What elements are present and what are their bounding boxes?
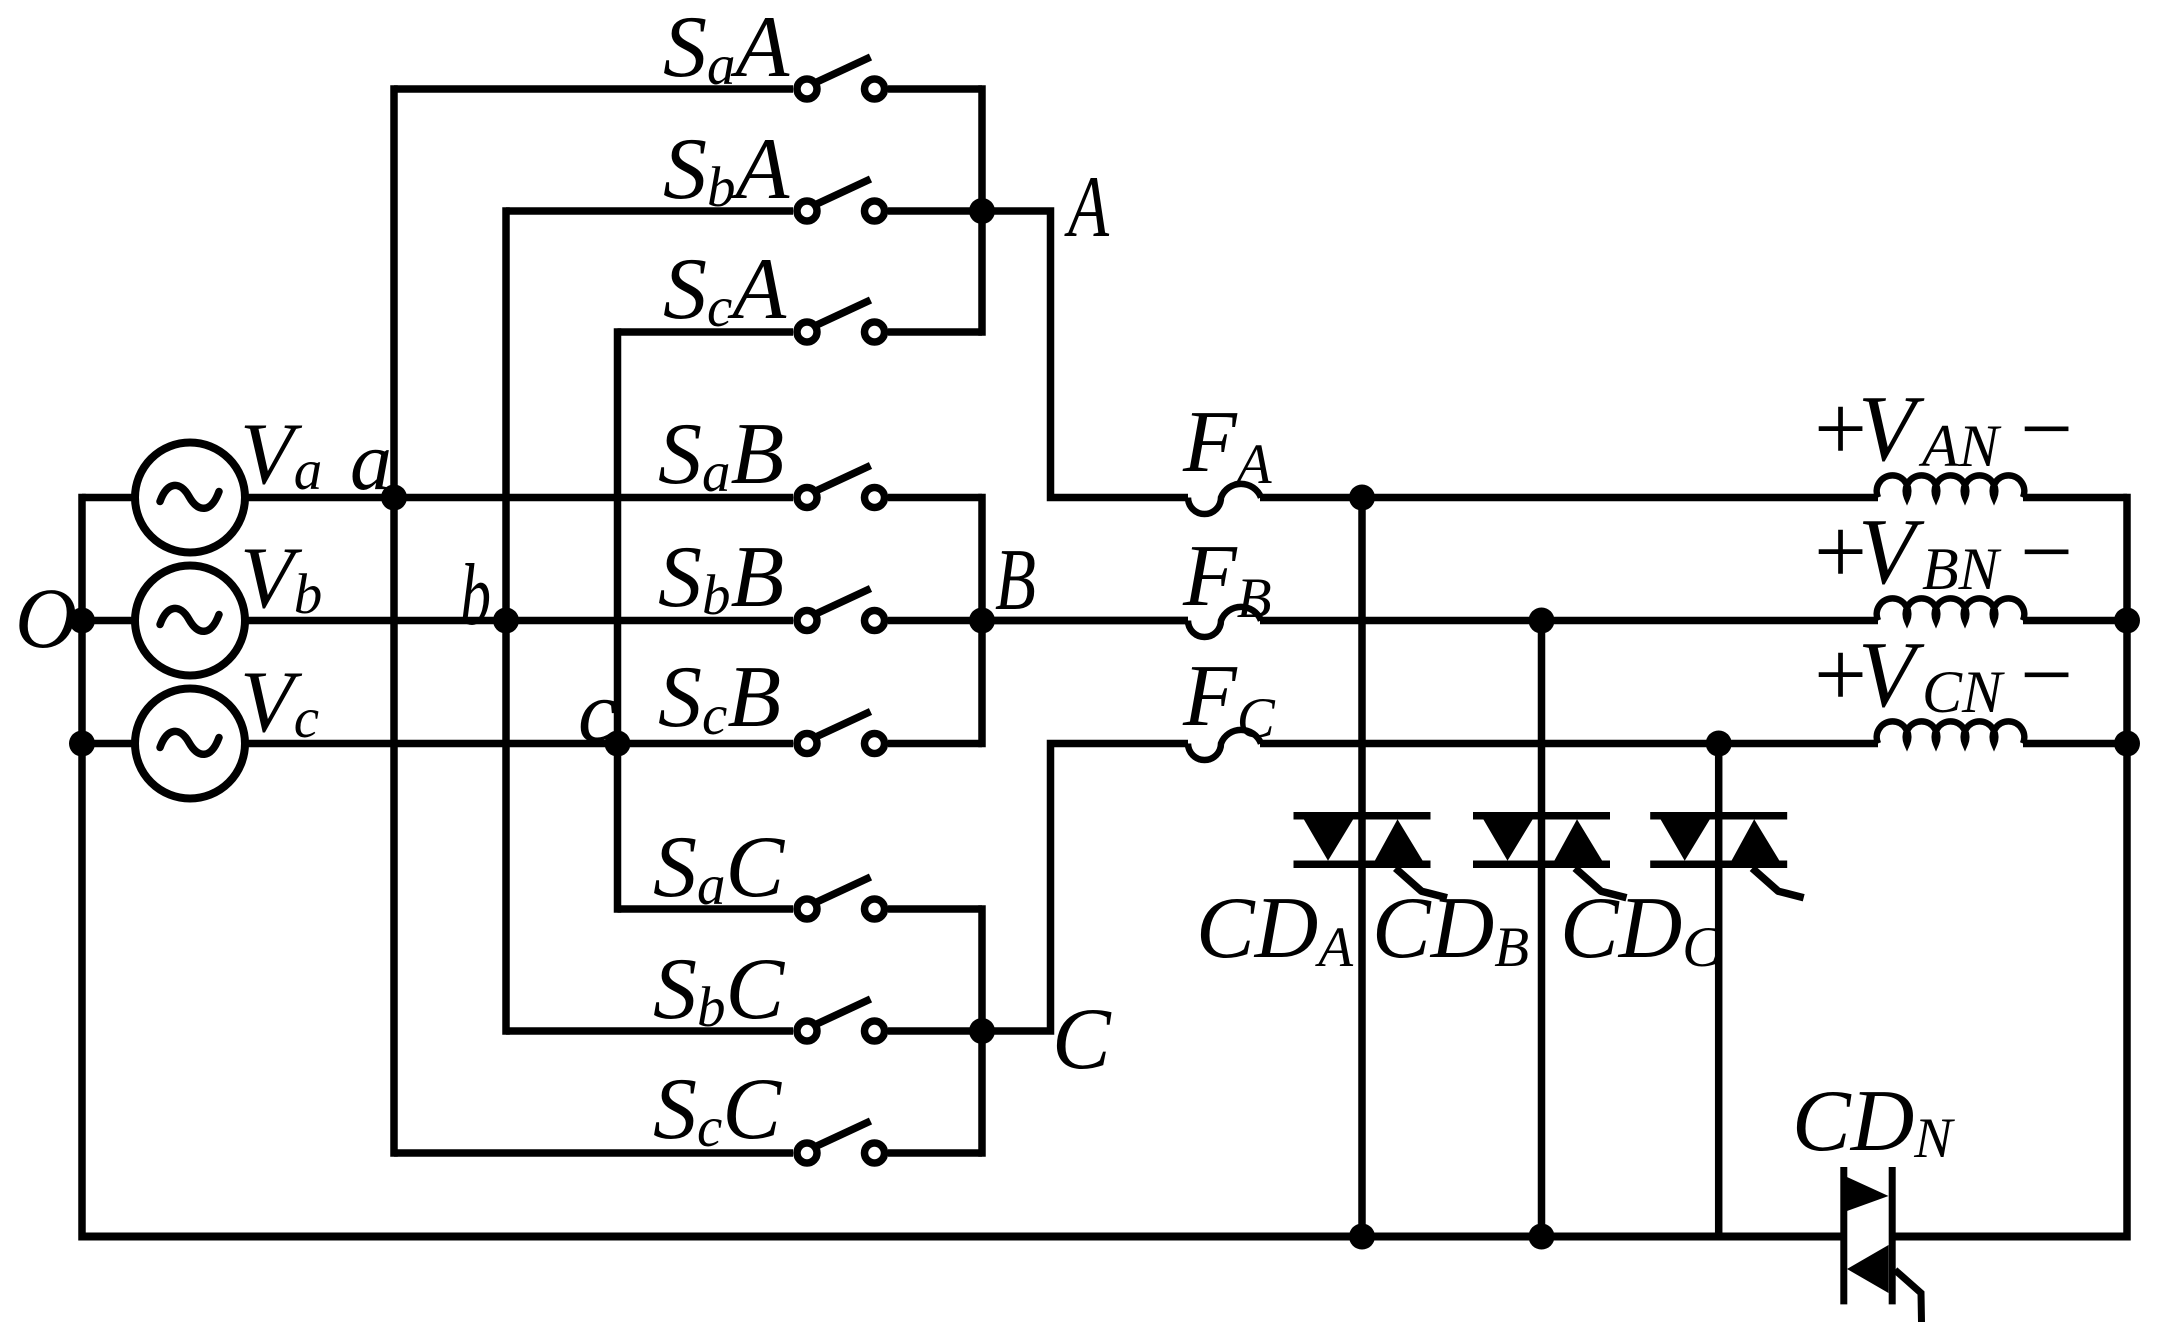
wire: bottom horizontal (right of CD_N) <box>1892 1233 2127 1241</box>
wire: crowbar vertical CD_B <box>1538 621 1546 1237</box>
svg-text:c: c <box>578 664 617 761</box>
switch SbA <box>797 179 885 221</box>
svg-text:−: − <box>2014 623 2077 727</box>
wire: FB row after fuse to inductor <box>1260 617 1878 625</box>
node B dot <box>969 608 995 634</box>
junction dot bottom CD_B <box>1529 1224 1555 1250</box>
switch ScC <box>797 1121 885 1163</box>
switch SbB <box>797 589 885 631</box>
switch ScB <box>797 712 885 754</box>
wire: crowbar vertical CD_C <box>1715 744 1723 1237</box>
wire: vertical c feeder <box>614 328 622 913</box>
svg-text:V: V <box>1858 623 1925 727</box>
node A dot <box>969 198 995 224</box>
wire: left vertical from phase-a corner through O down to bottom <box>78 494 86 1241</box>
label +V_CN- <box>1808 623 2077 727</box>
svg-text:B: B <box>995 532 1036 629</box>
AC source Va <box>135 443 245 553</box>
svg-text:O: O <box>15 570 77 666</box>
svg-text:CN: CN <box>1922 659 2005 725</box>
junction dot FA/CD_A <box>1349 485 1375 511</box>
junction dot bottom CD_A <box>1349 1224 1375 1250</box>
wire: phase a row source to switch <box>240 494 793 502</box>
fuse FB <box>1188 607 1261 637</box>
node c dot <box>605 731 631 757</box>
wire: switch row SbA <box>506 207 793 215</box>
inductor load VCN <box>1877 721 2025 743</box>
wire: bottom horizontal (left of CD_N) <box>82 1233 1844 1241</box>
wire: FC row after fuse to inductor <box>1260 740 1878 748</box>
wire: FA row inductor right to N vertical <box>2023 494 2127 502</box>
inductor load VBN <box>1877 598 2025 620</box>
wire: phase b row after switch to fuse FB <box>888 617 1188 625</box>
node O dot <box>69 608 95 634</box>
svg-text:V: V <box>1858 500 1925 604</box>
AC source Vc <box>135 689 245 799</box>
wire: phase b row stub <box>82 617 140 625</box>
junction dot N/VCN <box>2114 731 2140 757</box>
wire: vertical a feeder <box>390 85 398 1157</box>
switch SaC <box>797 877 885 919</box>
svg-text:V: V <box>1858 377 1925 481</box>
svg-text:BN: BN <box>1922 536 2002 602</box>
svg-text:AN: AN <box>1918 413 2002 479</box>
switch SbC <box>797 999 885 1041</box>
node C dot <box>969 1018 995 1044</box>
wire: switch row ScC <box>394 1149 793 1157</box>
wire: phase c row source to switch <box>240 740 793 748</box>
fuse FC <box>1188 730 1261 760</box>
inductor load VAN <box>1877 475 2025 497</box>
node a dot <box>381 485 407 511</box>
wire: switch row SaC <box>618 905 794 913</box>
svg-text:−: − <box>2014 377 2077 481</box>
wire: phase a row after switch <box>888 494 982 502</box>
node b dot <box>493 608 519 634</box>
triac CD_C <box>1650 816 1804 898</box>
node dot left phase c <box>69 731 95 757</box>
wire: N vertical right side <box>2123 494 2131 1241</box>
svg-text:−: − <box>2014 500 2077 604</box>
svg-text:a: a <box>350 415 392 508</box>
wire: phase b row source to switch <box>240 617 793 625</box>
junction dot N/VBN <box>2114 608 2140 634</box>
switch SaB <box>797 466 885 508</box>
wire: A group right vertical <box>978 85 986 336</box>
junction dot FB/CD_B <box>1529 608 1555 634</box>
fuse FA <box>1188 484 1261 514</box>
label +V_AN- <box>1808 377 2077 481</box>
switch SaA <box>797 57 885 99</box>
svg-text:b: b <box>460 547 491 644</box>
wire: switch row ScA <box>618 328 794 336</box>
switch ScA <box>797 300 885 342</box>
junction dot FC/CD_C <box>1706 731 1732 757</box>
wire: phase c row after switch <box>888 740 982 748</box>
triac CD_N (rotated) <box>1844 1167 1922 1322</box>
wire: node A to output row <box>982 211 1188 498</box>
label +V_BN- <box>1808 500 2077 604</box>
wire: phase c row stub <box>82 740 140 748</box>
wire: B group right vertical <box>978 494 986 748</box>
wire: switch row SbC <box>506 1027 793 1035</box>
svg-text:A: A <box>1064 159 1110 256</box>
wire: vertical b feeder <box>502 207 510 1035</box>
wire: crowbar vertical CD_A <box>1358 498 1366 1237</box>
wire: phase a row stub <box>82 494 140 502</box>
wire: switch row SaA <box>394 85 793 93</box>
wire: node C to output row FC <box>982 744 1188 1032</box>
triac CD_B <box>1473 816 1627 898</box>
wire: FA row after fuse to inductor <box>1260 494 1878 502</box>
wire: node B to fuse FB handled by phase b row <box>982 617 1188 625</box>
AC source Vb <box>135 566 245 676</box>
triac CD_A <box>1294 816 1448 898</box>
wire: C group right vertical <box>978 905 986 1157</box>
svg-text:C: C <box>1052 991 1112 1088</box>
